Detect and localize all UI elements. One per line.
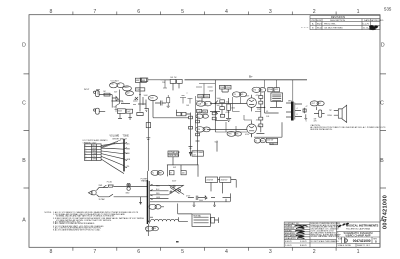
svg-text:DATE: DATE <box>364 19 370 22</box>
svg-text:6-1-76: 6-1-76 <box>363 23 370 25</box>
svg-text:4: 4 <box>85 153 86 155</box>
svg-text:5: 5 <box>181 9 184 15</box>
svg-text:1500: 1500 <box>231 107 235 109</box>
svg-text:6: 6 <box>137 9 140 15</box>
svg-text:TRANS: TRANS <box>141 180 148 183</box>
svg-text:ECN: ECN <box>317 20 322 22</box>
svg-text:B+: B+ <box>249 75 253 79</box>
svg-text:6: 6 <box>85 159 86 161</box>
svg-text:MUSICAL INSTRUMENTS: MUSICAL INSTRUMENTS <box>346 223 379 227</box>
svg-text:2: 2 <box>313 9 316 15</box>
svg-text:B: B <box>380 158 384 164</box>
svg-text:6V6: 6V6 <box>235 134 238 136</box>
svg-text:C: C <box>380 101 384 107</box>
svg-text:47: 47 <box>170 173 172 175</box>
svg-text:3: 3 <box>85 151 86 153</box>
svg-text:#47: #47 <box>193 154 196 156</box>
svg-text:470: 470 <box>256 95 259 97</box>
svg-text:GRN: GRN <box>126 159 131 161</box>
svg-text:8: 8 <box>49 9 52 15</box>
svg-text:.022: .022 <box>256 119 260 121</box>
svg-text:8621: 8621 <box>317 23 323 25</box>
svg-text:CN 4821 REVISED: CN 4821 REVISED <box>324 27 343 29</box>
svg-text:SW: SW <box>173 167 176 169</box>
svg-text:8: 8 <box>297 114 298 116</box>
svg-text:1: 1 <box>357 249 360 255</box>
svg-text:PROD. REL.: PROD. REL. <box>324 23 337 25</box>
svg-text:F1 2A: F1 2A <box>107 181 113 184</box>
svg-text:0047421000: 0047421000 <box>353 239 371 243</box>
svg-text:D: D <box>381 43 385 49</box>
svg-text:3: 3 <box>269 9 272 15</box>
svg-text:GND: GND <box>125 192 130 194</box>
svg-text:YEL: YEL <box>92 156 95 158</box>
svg-text:QUAL APPR: QUAL APPR <box>285 237 296 240</box>
svg-text:REVISIONS: REVISIONS <box>331 15 345 19</box>
svg-text:T2: T2 <box>146 228 148 230</box>
svg-text:4: 4 <box>225 9 228 15</box>
svg-text:250 5W: 250 5W <box>267 139 273 141</box>
svg-text:.02: .02 <box>134 99 137 101</box>
svg-text:SHEET 1 OF 1: SHEET 1 OF 1 <box>357 245 371 247</box>
svg-text:V1 12AX7: V1 12AX7 <box>111 80 119 83</box>
svg-text:5U4: 5U4 <box>266 116 269 118</box>
svg-text:5: 5 <box>85 156 86 158</box>
svg-text:7: 7 <box>93 9 96 15</box>
svg-text:1/2: 1/2 <box>118 84 121 86</box>
svg-text:DO NOT SCALE THIS DRAWING: DO NOT SCALE THIS DRAWING <box>311 240 339 243</box>
svg-text:INPUT: INPUT <box>84 89 90 91</box>
svg-text:8: 8 <box>49 249 52 255</box>
svg-text:1: 1 <box>357 9 360 15</box>
svg-text:117VAC: 117VAC <box>99 198 106 201</box>
svg-text:GRN: GRN <box>92 159 97 161</box>
svg-text:3: 3 <box>269 249 272 255</box>
svg-text:VOLUME: VOLUME <box>110 136 120 138</box>
svg-text:20/475V: 20/475V <box>206 179 213 181</box>
svg-text:PWR: PWR <box>158 172 163 174</box>
svg-text:12AX7: 12AX7 <box>124 86 129 89</box>
svg-text:1: 1 <box>85 145 86 147</box>
svg-text:20/475V: 20/475V <box>221 179 228 181</box>
svg-text:MFG APPR: MFG APPR <box>285 234 295 237</box>
svg-text:4: 4 <box>297 108 298 110</box>
svg-text:HUM BAL: HUM BAL <box>193 215 201 218</box>
svg-text:DESCRIPTION: DESCRIPTION <box>330 20 345 22</box>
svg-text:1/2: 1/2 <box>204 129 207 131</box>
svg-text:C: C <box>22 101 26 107</box>
svg-text:LTR: LTR <box>311 20 315 22</box>
svg-text:7: 7 <box>93 249 96 255</box>
svg-text:ORN: ORN <box>92 153 97 155</box>
svg-text:YEL: YEL <box>126 166 129 168</box>
svg-text:TONE: TONE <box>123 136 130 138</box>
svg-text:4-30-76: 4-30-76 <box>285 241 292 243</box>
svg-text:25: 25 <box>255 140 257 142</box>
svg-text:10K 1W: 10K 1W <box>170 77 177 79</box>
svg-text:9142: 9142 <box>317 27 323 29</box>
svg-text:A: A <box>22 218 26 224</box>
svg-text:5. ALL CAPACITOR VALUES IN MIC: 5. ALL CAPACITOR VALUES IN MICROFARADS. <box>53 222 95 225</box>
svg-text:470: 470 <box>314 121 317 123</box>
svg-text:6: 6 <box>137 249 140 255</box>
svg-text:.047: .047 <box>127 111 131 113</box>
svg-text:8-30-76: 8-30-76 <box>300 245 307 247</box>
svg-text:25: 25 <box>122 102 124 104</box>
svg-text:CHANNEL ONLY: CHANNEL ONLY <box>83 141 98 144</box>
svg-text:SW1: SW1 <box>99 185 103 187</box>
svg-text:47: 47 <box>306 106 308 108</box>
svg-text:6V6: 6V6 <box>240 94 243 96</box>
svg-text:5U4: 5U4 <box>215 141 218 143</box>
svg-text:1500: 1500 <box>136 89 140 91</box>
svg-text:NOTES:: NOTES: <box>45 212 53 214</box>
svg-text:535: 535 <box>384 6 392 11</box>
svg-text:10%: 10% <box>270 143 274 145</box>
svg-text:FULLERTON, CALIFORNIA: FULLERTON, CALIFORNIA <box>346 227 370 230</box>
svg-text:9-14-76: 9-14-76 <box>300 241 307 243</box>
svg-text:4: 4 <box>225 249 228 255</box>
svg-text:APPROVED: APPROVED <box>371 19 384 22</box>
svg-text:0047421000: 0047421000 <box>383 195 389 229</box>
svg-text:470: 470 <box>253 89 256 91</box>
svg-text:117VAC 60HZ: 117VAC 60HZ <box>169 151 181 154</box>
svg-text:.022: .022 <box>226 102 230 104</box>
svg-text:.022: .022 <box>275 89 279 91</box>
svg-text:FUSE 2A SB: FUSE 2A SB <box>169 154 180 157</box>
svg-text:2: 2 <box>85 148 86 150</box>
svg-text:1/2: 1/2 <box>205 103 208 105</box>
svg-text:BEFORE INSTALLATION.: BEFORE INSTALLATION. <box>310 128 332 131</box>
svg-text:T1: T1 <box>152 172 154 174</box>
svg-text:BRIGHT SWITCH: BRIGHT SWITCH <box>113 138 128 140</box>
svg-text:820: 820 <box>114 107 117 109</box>
svg-text:SCALE: NONE: SCALE: NONE <box>338 244 352 247</box>
svg-text:2-14-76: 2-14-76 <box>285 245 292 247</box>
svg-text:B: B <box>375 239 377 243</box>
svg-text:D: D <box>344 239 348 245</box>
svg-text:5: 5 <box>181 249 184 255</box>
svg-text:B: B <box>22 158 26 164</box>
svg-text:V4: V4 <box>266 111 268 113</box>
svg-text:V3: V3 <box>233 94 235 96</box>
svg-text:VIBRO CHAMP AMP: VIBRO CHAMP AMP <box>345 234 370 238</box>
svg-text:8. AC VOLTAGES MEASURED WITH V: 8. AC VOLTAGES MEASURED WITH VTVM, NO LO… <box>53 229 101 232</box>
svg-text:GRN: GRN <box>156 197 161 199</box>
svg-text:1W: 1W <box>260 89 263 91</box>
svg-text:EDGES. MATERIAL: SEE NOTES: EDGES. MATERIAL: SEE NOTES <box>311 235 340 238</box>
svg-text:.022: .022 <box>126 93 130 95</box>
svg-text:RING: RING <box>327 115 332 117</box>
svg-text:2: 2 <box>313 249 316 255</box>
svg-text:.1: .1 <box>186 93 188 95</box>
svg-text:D: D <box>22 43 26 49</box>
